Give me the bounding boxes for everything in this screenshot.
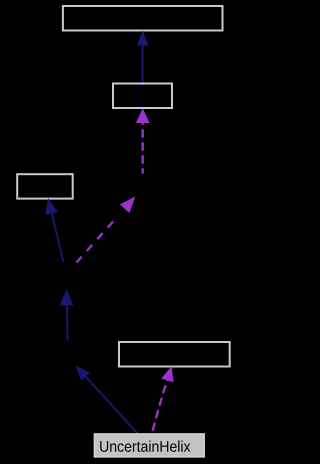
node box UncertainHelix (current class, grey filled) xyxy=(94,434,204,457)
usage arrow: junction1 to junction2 (dashed purple diagonal) xyxy=(76,198,134,263)
inheritance arrow: box2 to box1 (solid) xyxy=(138,32,148,86)
usage arrow: UncertainHelix to box4 (dashed purple diagonal) xyxy=(152,367,173,433)
inheritance arrow: UncertainHelix to junction3 (solid blue diagonal) xyxy=(76,366,138,434)
node box 2 (second ancestor class) xyxy=(113,84,172,109)
node box 3 (left class) xyxy=(17,174,72,198)
inheritance arrow: junction1 to box3 (solid blue diagonal) xyxy=(46,199,63,262)
inheritance arrow: junction3 to junction1 (solid blue vertical) xyxy=(61,290,73,341)
node box 4 (right class above UncertainHelix) xyxy=(119,342,230,367)
usage arrow: junction node to box2 (dashed purple) xyxy=(137,109,149,173)
node box (top ancestor class) xyxy=(63,6,223,31)
